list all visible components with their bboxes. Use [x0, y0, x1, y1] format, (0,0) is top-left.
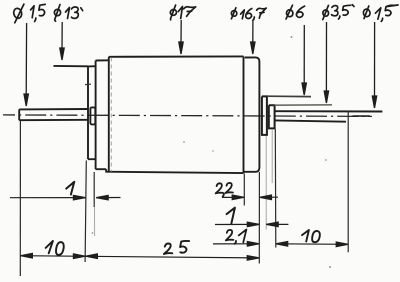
- hub ⌀3,5: [269, 105, 275, 128]
- dim line 2,2: [222, 195, 278, 200]
- ⌀6 leader line: [267, 95, 311, 97]
- dim line 10 left and 25: [20, 253, 259, 260]
- body seam (faint): [110, 58, 112, 172]
- arrow ⌀13: [60, 22, 64, 60]
- arrow ⌀6: [302, 25, 306, 95]
- bearing boss on cap: [90, 107, 95, 124]
- ext line cap right: [258, 172, 260, 264]
- label 10 (left shaft length): [46, 241, 64, 255]
- ext line left shaft end: [19, 121, 21, 276]
- right end cap ⌀16,7: [244, 57, 259, 171]
- label 2,2: [216, 183, 233, 197]
- label ⌀6: [286, 5, 305, 19]
- arrow ⌀17: [179, 20, 183, 54]
- ext line hub left (faint): [271, 129, 273, 183]
- ext line shaft end: [347, 111, 349, 253]
- ext line hub right: [274, 129, 277, 248]
- dim line 1 (collar): [215, 222, 288, 227]
- ext line cap back: [93, 172, 95, 207]
- ext line cap face: [85, 161, 86, 263]
- label 2,1: [226, 229, 247, 243]
- ⌀13 leader line: [54, 65, 89, 67]
- left shaft ⌀1,5: [19, 109, 88, 120]
- scan specks: [92, 36, 331, 268]
- label 1 (left cap width): [66, 182, 74, 195]
- label ⌀3,5: [322, 5, 350, 19]
- label ⌀13: [54, 5, 83, 22]
- arrow ⌀16,7: [251, 21, 255, 55]
- ext line disc right (faint): [265, 136, 267, 230]
- right shaft ⌀1,5: [275, 111, 383, 122]
- label ⌀1,5 top left: [13, 4, 45, 23]
- centerline axis: [3, 115, 372, 117]
- arrow ⌀3,5: [324, 22, 328, 103]
- body right face: [243, 56, 245, 173]
- label ⌀1,5 top right: [352, 5, 398, 22]
- left end cap ⌀13: [88, 66, 96, 159]
- arrow ⌀1,5 right: [372, 22, 376, 108]
- label ⌀16,7: [231, 8, 266, 20]
- flange ring: [96, 60, 109, 169]
- shaft tip mark: [352, 115, 369, 117]
- collar disc ⌀6: [262, 96, 267, 134]
- label 1 (collar width): [227, 208, 235, 224]
- arrow ⌀1,5 left: [24, 23, 28, 106]
- label 10 (right shaft length): [302, 230, 320, 242]
- dim line 1 (left cap): [10, 195, 121, 200]
- ⌀3,5 leader line: [275, 104, 332, 106]
- label ⌀17: [170, 5, 196, 20]
- label 25 (body length): [164, 241, 189, 254]
- dim line 2,1 and 10 right: [213, 242, 348, 247]
- motor body ⌀17: [106, 56, 243, 173]
- ext line body right: [243, 174, 245, 206]
- stray pencil tick on cap face: [85, 83, 91, 86]
